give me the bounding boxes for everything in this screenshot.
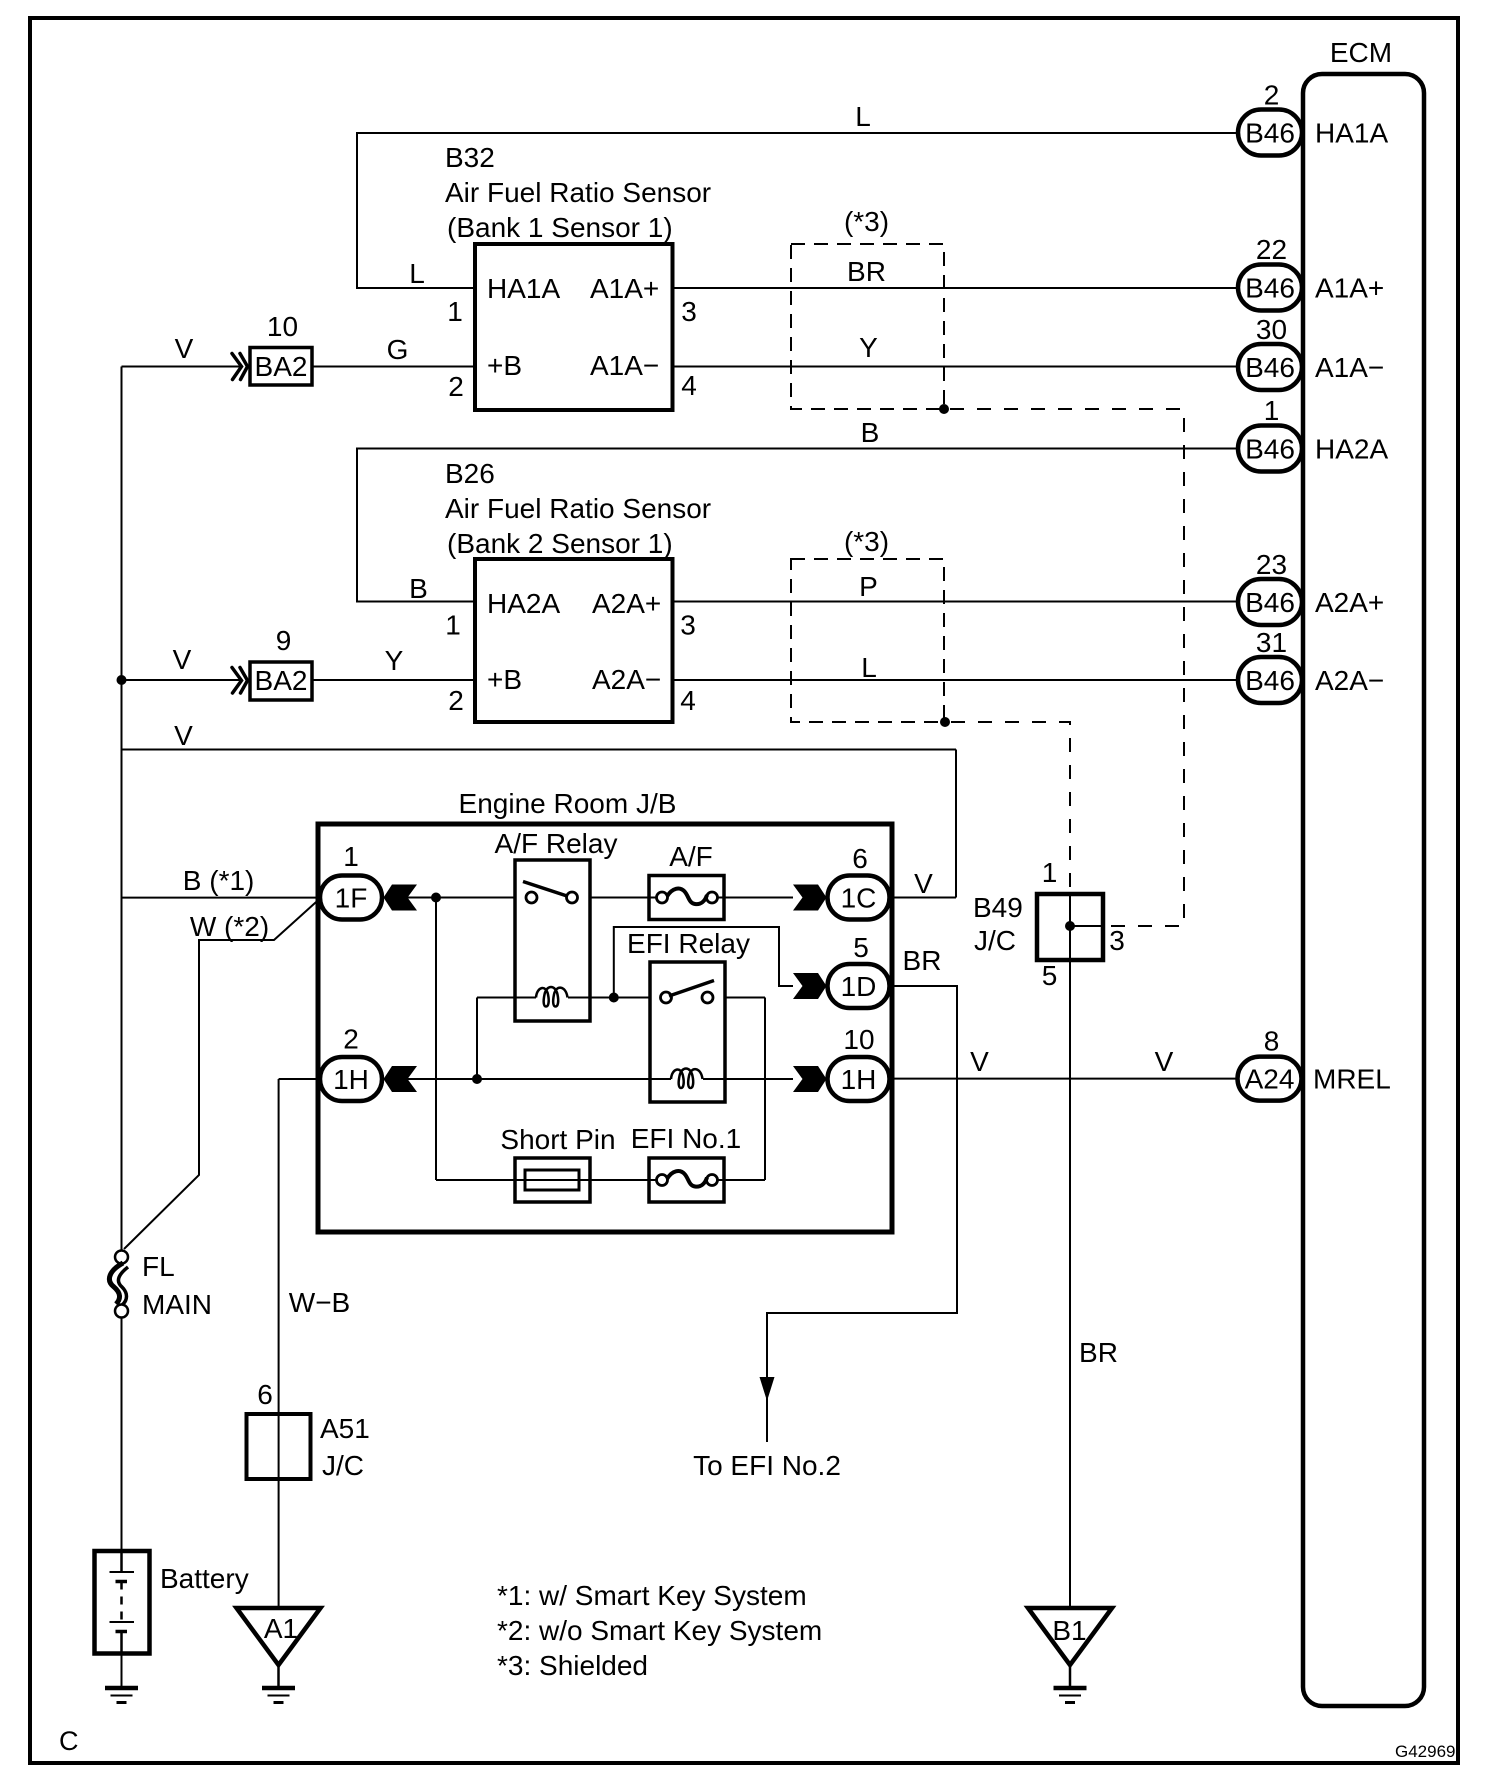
svg-text:B1: B1 bbox=[1052, 1615, 1086, 1646]
svg-text:A1: A1 bbox=[264, 1613, 298, 1644]
svg-text:1: 1 bbox=[1264, 395, 1280, 426]
svg-text:A2A+: A2A+ bbox=[592, 588, 661, 619]
svg-text:A2A−: A2A− bbox=[1315, 665, 1384, 696]
svg-text:B46: B46 bbox=[1245, 587, 1295, 618]
svg-text:B: B bbox=[861, 417, 880, 448]
svg-text:EFI No.1: EFI No.1 bbox=[631, 1123, 741, 1154]
svg-text:HA2A: HA2A bbox=[1315, 434, 1388, 465]
svg-text:3: 3 bbox=[680, 610, 696, 641]
svg-text:*3: Shielded: *3: Shielded bbox=[497, 1650, 648, 1681]
svg-text:2: 2 bbox=[448, 685, 464, 716]
svg-text:A/F: A/F bbox=[669, 841, 713, 872]
svg-text:MAIN: MAIN bbox=[142, 1289, 212, 1320]
svg-text:22: 22 bbox=[1256, 234, 1287, 265]
svg-text:FL: FL bbox=[142, 1251, 175, 1282]
svg-text:B32: B32 bbox=[445, 142, 495, 173]
svg-text:G42969: G42969 bbox=[1395, 1742, 1456, 1761]
svg-text:BR: BR bbox=[847, 256, 886, 287]
svg-text:(Bank 2 Sensor 1): (Bank 2 Sensor 1) bbox=[447, 528, 673, 559]
svg-text:Y: Y bbox=[385, 645, 404, 676]
svg-text:Battery: Battery bbox=[160, 1563, 249, 1594]
svg-text:A2A+: A2A+ bbox=[1315, 587, 1384, 618]
svg-text:BR: BR bbox=[903, 945, 942, 976]
svg-text:HA2A: HA2A bbox=[487, 588, 560, 619]
svg-text:B49: B49 bbox=[973, 892, 1023, 923]
svg-text:1C: 1C bbox=[841, 883, 877, 914]
svg-text:5: 5 bbox=[1042, 960, 1058, 991]
svg-text:23: 23 bbox=[1256, 549, 1287, 580]
svg-text:V: V bbox=[174, 720, 193, 751]
svg-text:(*3): (*3) bbox=[844, 206, 889, 237]
svg-text:A2A−: A2A− bbox=[592, 664, 661, 695]
svg-text:B: B bbox=[409, 573, 428, 604]
svg-text:A/F Relay: A/F Relay bbox=[495, 828, 618, 859]
svg-text:MREL: MREL bbox=[1313, 1064, 1391, 1095]
svg-text:4: 4 bbox=[680, 685, 696, 716]
svg-text:+B: +B bbox=[487, 350, 522, 381]
svg-text:A51: A51 bbox=[320, 1413, 370, 1444]
svg-text:9: 9 bbox=[276, 625, 292, 656]
svg-text:4: 4 bbox=[681, 370, 697, 401]
svg-text:8: 8 bbox=[1264, 1026, 1280, 1057]
svg-text:To EFI No.2: To EFI No.2 bbox=[693, 1450, 841, 1481]
svg-text:A1A+: A1A+ bbox=[1315, 273, 1384, 304]
svg-text:*1: w/ Smart Key System: *1: w/ Smart Key System bbox=[497, 1580, 807, 1611]
svg-text:3: 3 bbox=[681, 296, 697, 327]
svg-text:V: V bbox=[173, 644, 192, 675]
svg-text:1: 1 bbox=[343, 841, 359, 872]
svg-text:BR: BR bbox=[1079, 1337, 1118, 1368]
svg-text:Air Fuel Ratio Sensor: Air Fuel Ratio Sensor bbox=[445, 177, 711, 208]
svg-text:J/C: J/C bbox=[974, 925, 1016, 956]
svg-text:30: 30 bbox=[1256, 314, 1287, 345]
svg-text:A1A+: A1A+ bbox=[590, 273, 659, 304]
svg-text:+B: +B bbox=[487, 664, 522, 695]
svg-text:W (*2): W (*2) bbox=[190, 911, 269, 942]
svg-text:A1A−: A1A− bbox=[1315, 352, 1384, 383]
svg-text:L: L bbox=[861, 652, 877, 683]
svg-text:P: P bbox=[859, 571, 878, 602]
svg-text:*2: w/o Smart Key System: *2: w/o Smart Key System bbox=[497, 1615, 822, 1646]
svg-text:A24: A24 bbox=[1245, 1064, 1295, 1095]
svg-text:A1A−: A1A− bbox=[590, 350, 659, 381]
svg-text:10: 10 bbox=[843, 1024, 874, 1055]
svg-text:G: G bbox=[387, 334, 409, 365]
svg-text:6: 6 bbox=[852, 843, 868, 874]
svg-text:Short Pin: Short Pin bbox=[500, 1124, 615, 1155]
svg-text:1: 1 bbox=[1042, 857, 1058, 888]
svg-text:1: 1 bbox=[447, 296, 463, 327]
svg-text:BA2: BA2 bbox=[255, 665, 308, 696]
svg-text:V: V bbox=[970, 1046, 989, 1077]
svg-text:L: L bbox=[855, 101, 871, 132]
svg-text:3: 3 bbox=[1109, 925, 1125, 956]
svg-text:2: 2 bbox=[1264, 80, 1280, 111]
svg-text:B (*1): B (*1) bbox=[183, 865, 255, 896]
svg-text:31: 31 bbox=[1256, 627, 1287, 658]
svg-text:2: 2 bbox=[448, 371, 464, 402]
svg-text:6: 6 bbox=[257, 1379, 273, 1410]
svg-text:B46: B46 bbox=[1245, 434, 1295, 465]
svg-text:B46: B46 bbox=[1245, 352, 1295, 383]
svg-text:BA2: BA2 bbox=[255, 351, 308, 382]
svg-text:J/C: J/C bbox=[322, 1450, 364, 1481]
svg-text:Engine Room J/B: Engine Room J/B bbox=[459, 788, 677, 819]
svg-text:V: V bbox=[914, 868, 933, 899]
svg-text:2: 2 bbox=[343, 1024, 359, 1055]
svg-text:HA1A: HA1A bbox=[487, 273, 560, 304]
svg-text:V: V bbox=[1155, 1046, 1174, 1077]
svg-text:1: 1 bbox=[445, 610, 461, 641]
svg-text:B26: B26 bbox=[445, 458, 495, 489]
svg-text:L: L bbox=[409, 258, 425, 289]
svg-text:B46: B46 bbox=[1245, 665, 1295, 696]
svg-text:1H: 1H bbox=[841, 1064, 877, 1095]
svg-text:1H: 1H bbox=[333, 1064, 369, 1095]
svg-text:HA1A: HA1A bbox=[1315, 118, 1388, 149]
svg-text:B46: B46 bbox=[1245, 273, 1295, 304]
svg-text:1D: 1D bbox=[841, 971, 877, 1002]
svg-text:C: C bbox=[59, 1726, 79, 1756]
svg-text:V: V bbox=[175, 333, 194, 364]
svg-text:1F: 1F bbox=[335, 883, 368, 914]
svg-text:ECM: ECM bbox=[1330, 37, 1392, 68]
svg-text:Air Fuel Ratio Sensor: Air Fuel Ratio Sensor bbox=[445, 493, 711, 524]
svg-text:W−B: W−B bbox=[289, 1287, 350, 1318]
svg-text:B46: B46 bbox=[1245, 118, 1295, 149]
svg-text:10: 10 bbox=[267, 311, 298, 342]
svg-text:(Bank 1 Sensor 1): (Bank 1 Sensor 1) bbox=[447, 212, 673, 243]
svg-text:(*3): (*3) bbox=[844, 526, 889, 557]
svg-text:Y: Y bbox=[859, 332, 878, 363]
svg-text:5: 5 bbox=[853, 932, 869, 963]
svg-text:EFI Relay: EFI Relay bbox=[627, 928, 750, 959]
